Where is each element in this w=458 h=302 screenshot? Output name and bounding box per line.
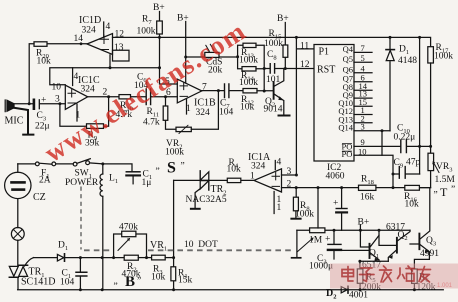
svg-text:T: T bbox=[440, 185, 448, 199]
capacitor C1 1u bbox=[126, 171, 140, 173]
svg-text:MIC: MIC bbox=[5, 116, 24, 127]
resistor R11 bbox=[166, 97, 177, 130]
resistor R20 bbox=[34, 42, 47, 47]
svg-text:7: 7 bbox=[361, 43, 365, 53]
svg-text:10k: 10k bbox=[405, 200, 420, 210]
watermark band bottom right bbox=[330, 264, 458, 290]
wire RST row bbox=[285, 68, 314, 70]
svg-text:B+: B+ bbox=[153, 3, 165, 13]
wire rail x264 bbox=[256, 45, 270, 91]
node IC1D feedback on rail bbox=[109, 66, 112, 69]
wire IC1A output to R4 and TR2 bbox=[209, 179, 254, 181]
wire feedback box to rail bbox=[109, 55, 111, 68]
dashed link SW1 bbox=[80, 187, 82, 250]
resistor R7 bbox=[157, 21, 163, 34]
svg-text:IC1D: IC1D bbox=[79, 15, 101, 26]
capacitor C9 47p bbox=[393, 173, 420, 175]
pin Q9 stub 13 bbox=[354, 97, 372, 99]
resistor R2 bbox=[124, 255, 138, 260]
svg-text:470k: 470k bbox=[119, 223, 138, 233]
wire rail x237.6 R13/R14 left bbox=[238, 45, 243, 69]
svg-text:PO: PO bbox=[342, 149, 353, 159]
pin Q8 stub 14 bbox=[354, 89, 372, 91]
svg-text:B: B bbox=[125, 274, 135, 290]
resistor R3 bbox=[152, 255, 166, 260]
wire IC1C feedback loop bbox=[60, 97, 109, 126]
diode D2 4001 bbox=[341, 287, 347, 293]
capacitor C8 bbox=[270, 64, 274, 73]
svg-text:4001: 4001 bbox=[349, 291, 368, 301]
svg-text:NAC32A5: NAC32A5 bbox=[186, 195, 227, 205]
capacitor C3 1000u bbox=[333, 229, 336, 232]
svg-text:4.7k: 4.7k bbox=[143, 118, 160, 128]
wire IC1A pin2 long row bbox=[282, 187, 431, 189]
svg-text:1μ: 1μ bbox=[142, 178, 152, 188]
wire IC1B output to C7 and R12 bbox=[202, 90, 243, 92]
svg-text:4148: 4148 bbox=[398, 56, 417, 66]
wire C3 to IC1C pin3 bbox=[40, 103, 65, 105]
watermark www.elecfans.com diagonal bbox=[39, 15, 252, 168]
inductor L1 bbox=[102, 164, 104, 174]
IC U2 CD4060 box bbox=[314, 45, 354, 162]
svg-text:3: 3 bbox=[287, 167, 292, 177]
transistor Q2 9014 bbox=[273, 82, 275, 99]
resistor R10 bbox=[119, 95, 131, 99]
wire top bias rail from IC1D pin12 to R17 bbox=[113, 37, 431, 46]
svg-text:101: 101 bbox=[266, 75, 281, 85]
svg-text:1: 1 bbox=[277, 203, 282, 213]
microphone MIC bbox=[5, 100, 14, 112]
fuse F1 bbox=[35, 162, 39, 166]
dashed link 10 DOT row bbox=[84, 249, 291, 251]
svg-text:4: 4 bbox=[277, 158, 282, 168]
transistor Q2 6317 bbox=[396, 238, 398, 253]
svg-text:10k: 10k bbox=[37, 57, 52, 67]
svg-text:104: 104 bbox=[219, 108, 234, 118]
svg-text:324: 324 bbox=[196, 108, 211, 118]
svg-text:14: 14 bbox=[74, 34, 84, 44]
watermark char zi bbox=[360, 268, 375, 282]
svg-text:0.22μ: 0.22μ bbox=[394, 133, 416, 143]
wire MIC to C3 bbox=[14, 103, 33, 105]
potentiometer VR3 bbox=[428, 153, 434, 170]
svg-text:100k: 100k bbox=[239, 78, 258, 88]
pin Q14 stub 3 wire to D1 bbox=[354, 130, 390, 132]
transistor Q3 4991 bbox=[418, 234, 420, 250]
svg-text:2A: 2A bbox=[39, 176, 51, 186]
svg-text:”: ” bbox=[451, 185, 455, 195]
wire branch down to pin11 and IC1A pin3 bbox=[296, 37, 314, 175]
watermark char you bbox=[418, 267, 431, 283]
svg-text:22μ: 22μ bbox=[35, 122, 50, 132]
svg-text:Q4: Q4 bbox=[343, 44, 354, 54]
capacitor C7 bbox=[225, 84, 229, 98]
watermark char fa bbox=[380, 266, 392, 282]
resistor R1 bbox=[171, 267, 176, 281]
svg-text:100k: 100k bbox=[264, 39, 283, 49]
wire pin9 row with C10 bbox=[354, 145, 431, 147]
svg-text:B+: B+ bbox=[358, 218, 370, 228]
wire IC1B pin1 stub bbox=[186, 99, 188, 114]
svg-text:100k: 100k bbox=[434, 52, 453, 62]
svg-text:B+: B+ bbox=[277, 14, 289, 24]
resistor R18 bbox=[359, 185, 376, 190]
svg-text:4060: 4060 bbox=[326, 172, 345, 182]
switch SW1 bbox=[73, 162, 77, 166]
wire gate row to D1 bbox=[34, 257, 58, 259]
svg-text:CZ: CZ bbox=[33, 192, 46, 203]
resistor R13 bbox=[243, 43, 256, 47]
capacitor C1 104 bbox=[79, 258, 81, 290]
wire Q14 node down to pin10 row bbox=[381, 131, 383, 156]
wire IC1C pin4 riser bbox=[72, 68, 74, 86]
svg-text:4: 4 bbox=[74, 72, 79, 82]
svg-text:2: 2 bbox=[287, 180, 292, 190]
wire IC1A pin4 stub bbox=[274, 161, 276, 170]
svg-text:100k: 100k bbox=[137, 27, 156, 37]
svg-text:Q5: Q5 bbox=[343, 54, 353, 64]
watermark char dian bbox=[342, 267, 354, 282]
resistor R9 bbox=[87, 124, 104, 129]
svg-text:4991: 4991 bbox=[420, 249, 439, 259]
wire S node down to B row bbox=[173, 180, 175, 289]
resistor R4 bbox=[227, 178, 241, 182]
svg-text:”: ” bbox=[137, 277, 141, 287]
wire riser pin2-row to 1M bbox=[317, 188, 319, 228]
svg-text:10: 10 bbox=[358, 146, 367, 156]
potentiometer VR2 bbox=[176, 127, 191, 131]
svg-text:5: 5 bbox=[361, 53, 365, 63]
svg-text:47p: 47p bbox=[406, 158, 421, 168]
op-amp IC1B bbox=[177, 79, 202, 103]
wire right column rail to C9 bbox=[419, 37, 421, 174]
svg-text:4: 4 bbox=[106, 22, 111, 32]
svg-text:1.001: 1.001 bbox=[437, 283, 453, 289]
svg-text:„: „ bbox=[156, 162, 160, 172]
wire IC1D output to R20 bbox=[47, 43, 87, 45]
svg-text:S: S bbox=[167, 160, 176, 177]
svg-text:3: 3 bbox=[55, 95, 60, 105]
svg-text:”: ” bbox=[181, 162, 185, 172]
node rail-pin11 bbox=[295, 36, 298, 39]
resistor R17 bbox=[428, 47, 434, 63]
op-amp IC1D bbox=[87, 34, 113, 55]
wire IC1A pin11 stub bbox=[273, 192, 275, 214]
wire left rail R20 to MIC row bbox=[29, 44, 34, 104]
ground R8 bbox=[291, 218, 300, 220]
svg-text:13: 13 bbox=[114, 43, 124, 53]
node R7 top rail crossing bbox=[158, 36, 161, 39]
svg-text:10 DOT: 10 DOT bbox=[184, 240, 218, 250]
socket CZ bbox=[5, 172, 31, 198]
resistor R16 bbox=[405, 185, 420, 190]
svg-text:+: + bbox=[325, 235, 330, 245]
svg-text:1: 1 bbox=[250, 172, 255, 182]
wire IC1A pin3 bbox=[282, 174, 297, 176]
pin Q5 stub 5 bbox=[354, 61, 372, 63]
svg-text:POWER: POWER bbox=[65, 178, 99, 188]
resistor R6 bbox=[412, 269, 418, 283]
svg-text:324: 324 bbox=[251, 162, 266, 172]
svg-text:11: 11 bbox=[300, 42, 309, 52]
pin Q12 stub 1 bbox=[354, 114, 372, 116]
node R7 bottom on rail bbox=[158, 66, 161, 69]
svg-text:16k: 16k bbox=[360, 193, 375, 203]
wire B+ riser bottom bbox=[360, 225, 369, 247]
wire AC top row bbox=[18, 163, 132, 172]
potentiometer 1M bbox=[297, 229, 410, 231]
pin Q4 stub 7 bbox=[354, 51, 372, 53]
wire pin10 row down to C9 node bbox=[354, 155, 393, 187]
svg-text:100k: 100k bbox=[295, 210, 314, 220]
capacitor C5 22u bbox=[341, 188, 343, 231]
wire MIC ground bbox=[14, 108, 33, 135]
dashed mechanical links bbox=[81, 187, 291, 251]
pin Q6 stub 4 bbox=[354, 72, 372, 74]
triac TR1 SC141D bbox=[9, 266, 27, 276]
resistor R15 bbox=[284, 23, 286, 69]
svg-text:10k: 10k bbox=[240, 103, 255, 113]
lamp bbox=[11, 228, 24, 241]
wire Q1 base row bbox=[342, 249, 369, 251]
svg-text:12: 12 bbox=[300, 60, 310, 70]
pin Q10 stub 15 bbox=[354, 105, 372, 107]
capacitor C3 bbox=[33, 100, 36, 109]
svg-text:B+: B+ bbox=[177, 14, 189, 24]
diode D1 bottom-left bbox=[57, 254, 63, 261]
resistor R8 bbox=[295, 188, 297, 219]
svg-text:+: + bbox=[41, 96, 46, 106]
resistor feedback box IC1D pin13 bbox=[113, 50, 130, 61]
svg-text:1000μ: 1000μ bbox=[309, 262, 333, 272]
op-amp IC1C bbox=[65, 85, 87, 109]
svg-text:9014: 9014 bbox=[264, 105, 283, 115]
resistor R12 bbox=[243, 89, 257, 93]
wire IC1D pin4 stub bbox=[103, 22, 105, 37]
wire IC1C output row bbox=[88, 96, 178, 98]
svg-text:324: 324 bbox=[81, 85, 96, 95]
wire supply rail y68 (R7 bottom to op-amp pins) bbox=[50, 68, 160, 85]
svg-text:+: + bbox=[333, 199, 338, 209]
transistor Q1 6517 bbox=[369, 244, 371, 258]
svg-text:RST: RST bbox=[317, 65, 335, 76]
op-amp IC1A bbox=[254, 169, 282, 192]
potentiometer VR1 470k bbox=[114, 234, 147, 258]
svg-text:P1: P1 bbox=[319, 47, 330, 58]
resistor R5 bbox=[360, 261, 388, 290]
wire R7 column B+ to IC1B pin5 bbox=[160, 12, 178, 85]
diode D1 4148 bbox=[389, 37, 391, 130]
svg-text:1.5M: 1.5M bbox=[435, 175, 456, 185]
svg-text:2: 2 bbox=[103, 88, 108, 98]
svg-text:3: 3 bbox=[361, 121, 365, 131]
triac TR2 NAC32A5 bbox=[174, 179, 200, 181]
svg-text:„: „ bbox=[114, 277, 118, 287]
capacitor C6 bbox=[146, 89, 150, 105]
pin Q7 stub 6 bbox=[354, 81, 372, 83]
svg-text:„: „ bbox=[434, 185, 438, 195]
wire B+ riser to IC1B pin4 bbox=[185, 22, 187, 84]
resistor R14 bbox=[242, 67, 256, 71]
svg-text:10: 10 bbox=[52, 83, 62, 93]
svg-text:12: 12 bbox=[115, 29, 125, 39]
svg-text:SC141D: SC141D bbox=[21, 277, 55, 288]
svg-text:7: 7 bbox=[202, 83, 207, 93]
pin Q13 stub 2 bbox=[354, 122, 372, 124]
svg-text:324: 324 bbox=[82, 26, 97, 36]
photoresistor CdS bbox=[186, 56, 238, 58]
watermark char shao bbox=[398, 266, 415, 281]
svg-text:1: 1 bbox=[186, 104, 191, 114]
svg-text:10k: 10k bbox=[151, 273, 166, 283]
svg-text:104: 104 bbox=[60, 278, 75, 288]
overlines for P0 pins bbox=[342, 144, 352, 152]
capacitor C10 0.22u bbox=[401, 140, 407, 153]
svg-text:Q14: Q14 bbox=[338, 122, 353, 132]
svg-text:IC1B: IC1B bbox=[194, 98, 216, 109]
svg-text:100k: 100k bbox=[239, 56, 258, 66]
svg-text:100k: 100k bbox=[165, 148, 184, 158]
svg-text:10k: 10k bbox=[227, 165, 242, 175]
svg-text:1M: 1M bbox=[309, 236, 323, 246]
wire TR1 gate curve bbox=[25, 258, 34, 266]
svg-text:15k: 15k bbox=[178, 276, 193, 286]
wire IC1C pin1 stub bbox=[76, 104, 78, 121]
